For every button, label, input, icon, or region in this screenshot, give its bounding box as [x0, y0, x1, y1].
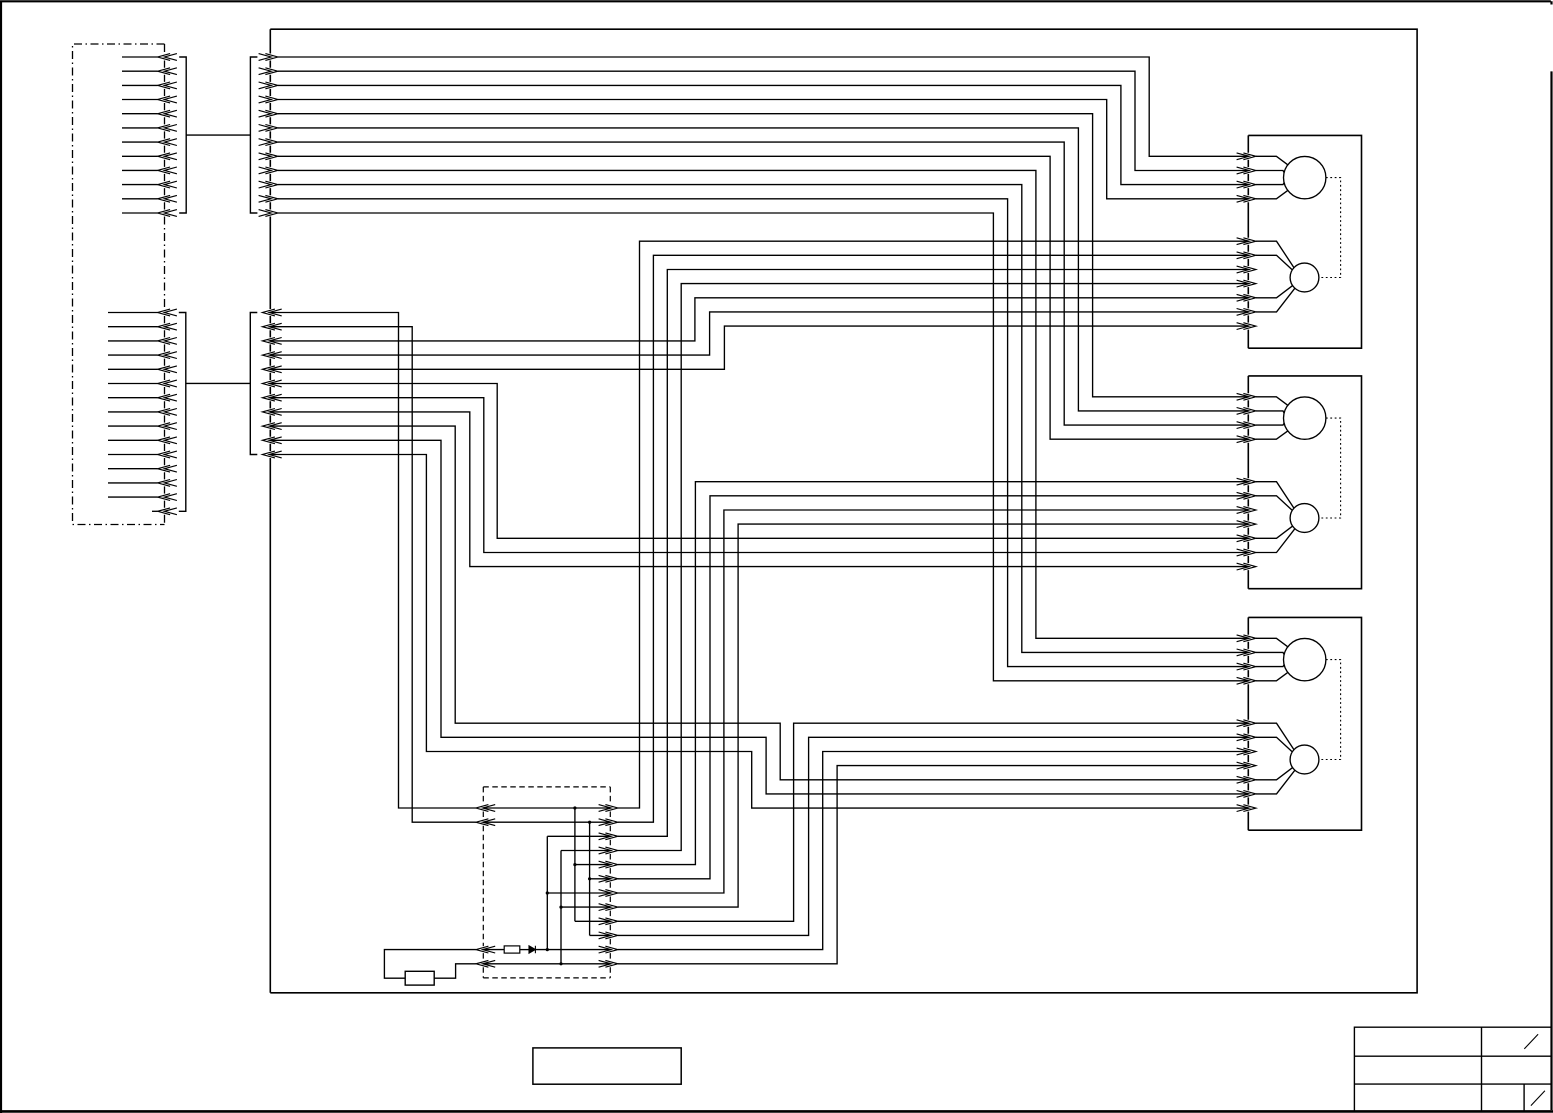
wire W1.5 (X1 pin 5 to motor box M2)	[278, 114, 1248, 397]
module bus V2	[560, 851, 562, 964]
wire W2.9 (X2 pin 9 to box M3)	[270, 426, 1248, 780]
wire D5 tail into M2 small circle	[1256, 482, 1294, 509]
harness bracket X1 left	[179, 57, 186, 213]
wire W2.1 (module A2 to box M1)	[618, 241, 1248, 808]
wire W1.7 (X1 pin 7 to motor box M2)	[278, 142, 1248, 425]
title block slash marks	[1524, 1034, 1545, 1105]
wire W1.3 tail into M1 large circle	[1256, 183, 1284, 185]
wire A3 out to D12 row	[434, 964, 476, 978]
motor box M1 left edge (with pin gaps)	[1247, 135, 1249, 348]
wire W2.2 row through module A2	[483, 821, 610, 823]
wire D9 (module A2 row 9 to box M3)	[618, 723, 1248, 921]
wire D3 (module A2 row 3 to box M1)	[618, 270, 1248, 837]
external connector cable shield (dash-dot outline)	[73, 44, 165, 525]
wire D12 inside module A2	[483, 963, 610, 965]
wire W2.1 (X2 pin 1 to module A2)	[270, 313, 476, 809]
diode VD1 lead	[520, 949, 529, 951]
wire W1.9 tail into M3 large circle	[1256, 638, 1288, 647]
motor M2 dotted coupling link	[1319, 418, 1341, 518]
wire W1.3 (X1 pin 3 to motor box M1)	[278, 85, 1248, 184]
motor M3 dotted coupling link	[1319, 660, 1341, 760]
main unit enclosure box	[270, 29, 1417, 993]
motor M3 large winding circle	[1284, 638, 1326, 680]
wire W2.4 tail into M1 small circle	[1256, 288, 1295, 312]
wire W2.2 (X2 pin 2 to module A2)	[270, 327, 476, 823]
wire D10 tail into M3 small circle	[1256, 737, 1292, 752]
wire W2.8 (X2 pin 8 to box M2)	[270, 412, 1248, 567]
wire W2.2 (module A2 to box M1)	[618, 255, 1248, 822]
wire D10 (module A2 row 10 to box M3)	[618, 737, 1248, 935]
wire W1.4 tail into M1 large circle	[1256, 190, 1288, 198]
module A2 right edge arrows (12)	[599, 805, 618, 968]
wire D3 inside module A2	[547, 835, 610, 837]
connector X2 pin leads (15)	[108, 313, 158, 512]
module bus V4	[589, 822, 591, 935]
connector X1 pin leads (12)	[122, 57, 158, 213]
wire D11 inside module A2	[535, 949, 610, 951]
wire D8 (module A2 row 8 to box M2)	[618, 524, 1248, 907]
wire D6 tail into M2 small circle	[1256, 496, 1292, 511]
wire W2.4 (X2 pin 4 to box M1)	[270, 312, 1248, 355]
wire D7 (module A2 row 7 to box M2)	[618, 510, 1248, 893]
connector X1 pin arrows (12)	[158, 54, 177, 217]
wire D12 (module A2 row 12 to box M3)	[618, 766, 1248, 964]
feed box A3	[405, 971, 434, 985]
motor M1 small winding circle	[1290, 263, 1319, 292]
wire W2.10 (X2 pin 10 to box M3)	[270, 440, 1248, 794]
harness bracket X2 left	[179, 313, 186, 512]
motor box M2 left edge (with pin gaps)	[1247, 376, 1249, 589]
motor M2 small winding circle	[1290, 504, 1319, 533]
wire W1.2 (X1 pin 2 to motor box M1)	[278, 71, 1248, 170]
harness bracket X1 right	[250, 57, 257, 213]
wire W1.2 tail into M1 large circle	[1256, 171, 1284, 173]
module junction dots	[546, 806, 592, 965]
wire W1.5 tail into M2 large circle	[1256, 397, 1288, 406]
wire W1.11 (X1 pin 11 to motor box M3)	[278, 199, 1248, 667]
wire W1.9 (X1 pin 9 to motor box M3)	[278, 170, 1248, 638]
wire W2.1 tail into M1 small circle	[1256, 241, 1294, 268]
motor box M2	[1248, 376, 1361, 589]
unit input arrows group 1 (12)	[259, 54, 278, 217]
control module A2 (dashed box)	[483, 787, 610, 978]
wire W2.7 tail into M2 small circle	[1256, 529, 1295, 553]
resistor R1 lead	[483, 949, 504, 951]
wire W1.4 (X1 pin 4 to motor box M1)	[278, 100, 1248, 199]
wire W1.10 tail into M3 large circle	[1256, 652, 1284, 654]
harness bracket X2 right	[250, 313, 257, 455]
wire W1.12 tail into M3 large circle	[1256, 672, 1288, 680]
wire W1.11 tail into M3 large circle	[1256, 665, 1284, 667]
diode VD1	[529, 946, 535, 953]
wire W1.6 (X1 pin 6 to motor box M2)	[278, 128, 1248, 411]
motor M1 dotted coupling link	[1319, 178, 1341, 278]
bottom label box	[533, 1048, 681, 1084]
wire W1.1 (X1 pin 1 to motor box M1)	[278, 57, 1248, 156]
wire W1.7 tail into M2 large circle	[1256, 423, 1284, 425]
harness cable link X1	[186, 134, 250, 136]
wire W2.6 (X2 pin 6 to box M2)	[270, 384, 1248, 539]
title block	[1354, 1027, 1551, 1111]
module bus V3	[574, 808, 576, 921]
wire D4 (module A2 row 4 to box M1)	[618, 284, 1248, 851]
motor M2 large winding circle	[1284, 397, 1326, 439]
module A2 left edge arrows (4)	[476, 805, 495, 968]
wire W2.3 (X2 pin 3 to box M1)	[270, 298, 1248, 341]
wire W2.10 tail into M3 small circle	[1256, 770, 1295, 794]
module bus V1	[546, 836, 548, 949]
wire W2.9 tail into M3 small circle	[1256, 768, 1293, 780]
wire D11 (module A2 row 11 to box M3)	[618, 752, 1248, 950]
wire D6 inside module A2	[590, 878, 611, 880]
motor M3 small winding circle	[1290, 745, 1319, 774]
motor box M3 left edge (with pin gaps)	[1247, 617, 1249, 830]
wire D5 (module A2 row 5 to box M2)	[618, 482, 1248, 865]
wire W1.8 tail into M2 large circle	[1256, 431, 1288, 439]
motor box M2 input arrows (11)	[1237, 393, 1256, 570]
wire W1.10 (X1 pin 10 to motor box M3)	[278, 185, 1248, 653]
main unit box left edge (with pin gaps)	[269, 29, 271, 993]
wire D10 inside module A2	[590, 934, 611, 936]
wire W1.8 (X1 pin 8 to motor box M2)	[278, 156, 1248, 439]
wire D7 inside module A2	[547, 892, 610, 894]
wire W1.12 (X1 pin 12 to motor box M3)	[278, 213, 1248, 681]
wire D4 inside module A2	[561, 850, 610, 852]
wire D8 inside module A2	[561, 906, 610, 908]
wire W2.6 tail into M2 small circle	[1256, 526, 1293, 538]
resistor R1	[504, 946, 520, 953]
harness cable link X2	[186, 382, 251, 384]
unit output arrows group 2 (11)	[262, 309, 281, 458]
wire W2.5 (X2 pin 5 to box M1)	[270, 326, 1248, 369]
wire W2.7 (X2 pin 7 to box M2)	[270, 398, 1248, 553]
wire D6 (module A2 row 6 to box M2)	[618, 496, 1248, 879]
motor box M1 input arrows (11)	[1237, 153, 1256, 330]
wire W2.11 (X2 pin 11 to box M3)	[270, 455, 1248, 809]
motor M1 large winding circle	[1284, 156, 1326, 198]
wire D9 tail into M3 small circle	[1256, 723, 1294, 750]
wire W1.1 tail into M1 large circle	[1256, 156, 1288, 165]
connector X2 pin arrows (15)	[158, 309, 177, 515]
motor box M1	[1248, 135, 1361, 348]
wire W2.2 tail into M1 small circle	[1256, 255, 1292, 270]
wire D5 inside module A2	[575, 864, 610, 866]
wire D11 left leg to feed box A3	[384, 950, 476, 979]
motor box M3 input arrows (11)	[1237, 635, 1256, 812]
wire W1.6 tail into M2 large circle	[1256, 411, 1284, 413]
motor box M3	[1248, 617, 1361, 830]
wire W2.3 tail into M1 small circle	[1256, 286, 1293, 298]
wire W2.1 row through module A2	[483, 807, 610, 809]
wire D9 inside module A2	[575, 920, 610, 922]
